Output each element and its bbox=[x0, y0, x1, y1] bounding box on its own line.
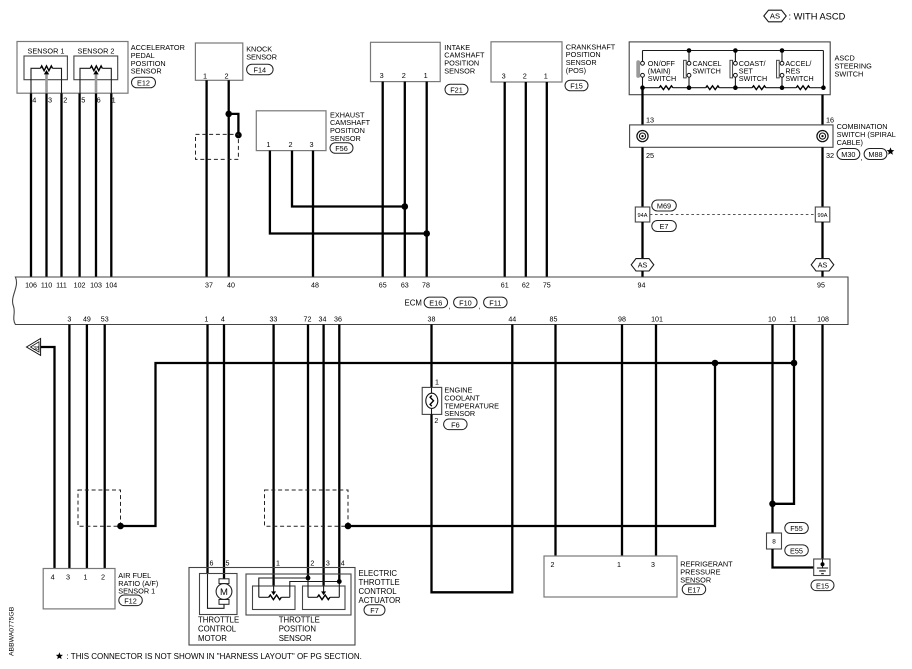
svg-text:4: 4 bbox=[221, 316, 225, 324]
svg-text:44: 44 bbox=[508, 316, 516, 324]
wire comb switch 32 down bbox=[821, 147, 823, 207]
wire crank pin2 to ECM 62 bbox=[525, 82, 527, 277]
junction AF shield bbox=[117, 523, 124, 530]
svg-text:SWITCH: SWITCH bbox=[739, 74, 767, 83]
svg-text:3: 3 bbox=[309, 140, 313, 149]
svg-text:,: , bbox=[861, 153, 863, 162]
svg-text:108: 108 bbox=[817, 316, 829, 324]
svg-text:111: 111 bbox=[56, 281, 67, 289]
switch ACCEL/ SWITCH bbox=[777, 51, 814, 88]
wire exhaust cam pin1 joins intake pin1 wire bbox=[270, 151, 427, 234]
svg-text:11: 11 bbox=[789, 316, 796, 324]
svg-text:103: 103 bbox=[90, 281, 102, 289]
svg-text:3: 3 bbox=[326, 559, 330, 567]
svg-text:36: 36 bbox=[334, 316, 342, 324]
svg-text:110: 110 bbox=[41, 281, 52, 289]
exhaust camshaft position sensor F56 bbox=[256, 110, 370, 153]
svg-text:ECM: ECM bbox=[405, 298, 422, 307]
resistor ladder R3 bbox=[752, 86, 766, 90]
shield dashed box AF sensor bbox=[78, 490, 121, 526]
svg-text:THROTTLE: THROTTLE bbox=[279, 616, 320, 625]
wire arrow 38 to AF sensor pin 4 bbox=[41, 347, 55, 569]
svg-text:2: 2 bbox=[434, 417, 438, 425]
actuator pin labels 6 5 1 2 3 4 bbox=[210, 559, 345, 567]
svg-text:2: 2 bbox=[224, 72, 228, 81]
label THROTTLE POSITION SENSOR bbox=[279, 616, 320, 643]
svg-text:M: M bbox=[220, 587, 228, 598]
shield dashed box throttle bbox=[265, 490, 349, 526]
svg-text:13: 13 bbox=[646, 115, 654, 124]
svg-text:85: 85 bbox=[550, 316, 558, 324]
svg-text:E55: E55 bbox=[790, 547, 803, 556]
shield drain run to x715 riser bbox=[348, 363, 715, 526]
svg-text:5: 5 bbox=[81, 95, 85, 104]
ECM label bbox=[405, 297, 508, 310]
wire crank pin3 to ECM 61 bbox=[504, 82, 506, 277]
wire intake pin3 to ECM 65 bbox=[382, 82, 384, 277]
wire ECM 33 to TPS pin 1 bbox=[272, 325, 274, 587]
ECM top pin number labels bbox=[25, 281, 825, 289]
svg-text:1: 1 bbox=[83, 573, 87, 582]
svg-text:3: 3 bbox=[502, 71, 506, 80]
svg-text:F21: F21 bbox=[450, 86, 463, 95]
connector 99A bbox=[815, 207, 830, 222]
wire crank pin1 to ECM 75 bbox=[546, 82, 548, 277]
svg-text:2: 2 bbox=[551, 561, 555, 569]
crankshaft position sensor (POS) F15 bbox=[491, 42, 616, 91]
wire ECM 10 down through connector 8 bbox=[771, 325, 773, 534]
svg-text:CONTROL: CONTROL bbox=[198, 625, 237, 634]
svg-text:F12: F12 bbox=[124, 596, 137, 605]
svg-text:62: 62 bbox=[522, 281, 530, 289]
wire AS to ECM 95 bbox=[821, 271, 823, 277]
svg-text:AS: AS bbox=[770, 12, 780, 21]
svg-text:AS: AS bbox=[818, 260, 828, 269]
svg-text:5: 5 bbox=[226, 559, 230, 567]
shield drain wire to signal run bbox=[121, 363, 795, 526]
knock sensor F14 bbox=[195, 43, 277, 81]
junction throttle shield bbox=[345, 523, 352, 530]
label ELECTRIC THROTTLE CONTROL ACTUATOR F7 bbox=[359, 569, 402, 615]
svg-text:F11: F11 bbox=[489, 298, 501, 307]
footnote bbox=[56, 652, 362, 661]
svg-text:78: 78 bbox=[422, 281, 430, 289]
svg-text:: THIS CONNECTOR IS NOT SHOWN: : THIS CONNECTOR IS NOT SHOWN IN "HARNES… bbox=[67, 652, 362, 661]
svg-text:SENSOR: SENSOR bbox=[131, 67, 162, 76]
svg-text:94: 94 bbox=[638, 281, 646, 289]
svg-text:40: 40 bbox=[227, 281, 235, 289]
svg-text:6: 6 bbox=[97, 95, 101, 104]
svg-text:3: 3 bbox=[67, 316, 71, 324]
svg-text:75: 75 bbox=[543, 281, 551, 289]
wire ECM 3 to AF sensor pin 3 bbox=[68, 325, 70, 569]
potentiometer sensor 2 bbox=[80, 66, 111, 94]
shield drain jog wire bbox=[229, 114, 239, 135]
wire ECM 34 to TPS pin 3 bbox=[322, 325, 324, 587]
throttle control motor bbox=[200, 574, 238, 615]
wire ECM 36 to TPS pin 4 bbox=[338, 325, 340, 582]
wire bbox=[95, 93, 97, 277]
svg-text:8: 8 bbox=[772, 539, 776, 546]
connector 8 F55 E55 bbox=[767, 523, 809, 556]
junction run at x715 bbox=[712, 360, 719, 367]
svg-text:SENSOR: SENSOR bbox=[330, 134, 361, 143]
svg-text:M30: M30 bbox=[841, 150, 855, 159]
label ACCELERATOR PEDAL POSITION SENSOR bbox=[131, 43, 185, 88]
electric throttle control actuator F7 box bbox=[189, 568, 355, 646]
svg-text:2: 2 bbox=[63, 95, 67, 104]
svg-text:F56: F56 bbox=[335, 144, 348, 153]
svg-text:106: 106 bbox=[25, 281, 37, 289]
svg-text:F6: F6 bbox=[451, 420, 460, 429]
svg-text:: WITH ASCD: : WITH ASCD bbox=[789, 12, 846, 22]
svg-text:,: , bbox=[449, 301, 451, 310]
wire connector 8 to ground E15 bbox=[773, 549, 814, 568]
svg-text:101: 101 bbox=[651, 316, 663, 324]
svg-text:F15: F15 bbox=[570, 82, 583, 91]
svg-text:CABLE): CABLE) bbox=[837, 138, 863, 147]
svg-text:(POS): (POS) bbox=[566, 66, 586, 75]
spiral cable contact left bbox=[637, 131, 648, 142]
svg-text:34: 34 bbox=[319, 316, 327, 324]
svg-text:53: 53 bbox=[101, 316, 109, 324]
svg-text:72: 72 bbox=[304, 316, 312, 324]
switch COAST/ SWITCH bbox=[730, 51, 767, 88]
wire ASCD to combination switch pin 16 bbox=[821, 95, 823, 125]
svg-text:SENSOR: SENSOR bbox=[444, 67, 475, 76]
svg-text:61: 61 bbox=[501, 281, 509, 289]
svg-text:M88: M88 bbox=[868, 150, 882, 159]
svg-text:CONTROL: CONTROL bbox=[359, 587, 398, 596]
wire ECM 11 joins wire 10 bbox=[773, 325, 795, 504]
svg-text:SENSOR: SENSOR bbox=[444, 409, 475, 418]
wire ECM 1 to throttle motor pin 6 bbox=[206, 325, 208, 575]
wire ECM 85 to refrigerant sensor pin 2 bbox=[554, 325, 556, 557]
potentiometer sensor 1 bbox=[31, 66, 62, 94]
svg-text:33: 33 bbox=[269, 316, 277, 324]
svg-text:AS: AS bbox=[638, 260, 648, 269]
switch CANCEL SWITCH bbox=[684, 51, 722, 88]
wire bbox=[78, 93, 80, 277]
ground symbol E15 bbox=[811, 559, 834, 591]
resistor ladder R1 bbox=[659, 86, 673, 90]
svg-text:94A: 94A bbox=[638, 213, 648, 219]
svg-text:1: 1 bbox=[424, 71, 428, 80]
svg-text:E12: E12 bbox=[137, 79, 150, 88]
svg-text:10: 10 bbox=[768, 316, 776, 324]
junctions ASCD top rail bbox=[687, 48, 785, 53]
resistor ladder R4 bbox=[796, 86, 809, 90]
svg-text:SENSOR: SENSOR bbox=[680, 575, 711, 584]
junction wires 10 and 11 bbox=[769, 501, 776, 508]
svg-text:E7: E7 bbox=[660, 222, 669, 231]
svg-text:,: , bbox=[478, 301, 480, 310]
svg-text:99A: 99A bbox=[818, 213, 828, 219]
svg-text:SENSOR: SENSOR bbox=[279, 634, 312, 643]
wire ECM 108 to ground E15 bbox=[821, 325, 823, 560]
svg-text:ELECTRIC: ELECTRIC bbox=[359, 569, 398, 578]
svg-text:4: 4 bbox=[341, 559, 345, 567]
svg-text:32: 32 bbox=[826, 151, 834, 160]
wire exhaust cam pin3 to ECM 48 bbox=[312, 151, 314, 277]
label ASCD STEERING SWITCH bbox=[835, 54, 873, 79]
svg-text:2: 2 bbox=[310, 559, 314, 567]
svg-text:16: 16 bbox=[826, 115, 834, 124]
svg-text:F55: F55 bbox=[790, 524, 803, 533]
svg-text:1: 1 bbox=[276, 559, 280, 567]
svg-text:F14: F14 bbox=[254, 66, 267, 75]
connector 94A bbox=[635, 207, 650, 222]
wire 94A to AS symbol bbox=[641, 222, 643, 259]
svg-text:1: 1 bbox=[617, 561, 621, 569]
wire 99A to AS symbol bbox=[821, 222, 823, 259]
wire bbox=[60, 93, 62, 277]
ECM box E16 F10 F11 bbox=[13, 277, 848, 325]
spiral cable contact right bbox=[817, 131, 828, 142]
svg-text:63: 63 bbox=[401, 281, 409, 289]
ECM bottom pin number labels bbox=[67, 316, 829, 324]
svg-text:6: 6 bbox=[210, 559, 214, 567]
ASCD top rail wire bbox=[643, 50, 824, 52]
junction shield corner bbox=[235, 132, 242, 139]
wire ECM 72 to TPS pin 2 bbox=[307, 325, 309, 579]
svg-text:48: 48 bbox=[311, 281, 319, 289]
engine coolant temperature sensor F6 bbox=[422, 378, 499, 429]
svg-text:1: 1 bbox=[203, 72, 207, 81]
legend symbol AS WITH ASCD bbox=[764, 10, 846, 22]
svg-text:37: 37 bbox=[205, 281, 213, 289]
svg-text:E16: E16 bbox=[429, 298, 442, 307]
wire bbox=[30, 93, 32, 277]
svg-text:SWITCH: SWITCH bbox=[693, 67, 721, 76]
svg-text:THROTTLE: THROTTLE bbox=[359, 578, 400, 587]
svg-text:49: 49 bbox=[83, 316, 91, 324]
wire knock pin2 to ECM 40 bbox=[228, 80, 230, 277]
wire ECM 101 to refrigerant sensor pin 3 bbox=[655, 325, 657, 557]
svg-text:MOTOR: MOTOR bbox=[198, 634, 227, 643]
svg-text:4: 4 bbox=[32, 95, 36, 104]
svg-text:3: 3 bbox=[380, 71, 384, 80]
svg-text:104: 104 bbox=[105, 281, 117, 289]
svg-text:ABBWA0775GB: ABBWA0775GB bbox=[9, 606, 16, 656]
switch ON/OFF SWITCH bbox=[636, 51, 676, 88]
junction on knock pin2 wire bbox=[225, 111, 232, 118]
AS hexagon right bbox=[811, 259, 834, 271]
wire ECM 49 to AF sensor pin 1 bbox=[86, 325, 88, 569]
svg-text:SWITCH: SWITCH bbox=[835, 69, 864, 78]
wire AS to ECM 94 bbox=[641, 271, 643, 277]
resistor ladder R2 bbox=[706, 86, 719, 90]
svg-text:2: 2 bbox=[402, 71, 406, 80]
wire bbox=[110, 93, 112, 277]
svg-text:E15: E15 bbox=[816, 581, 829, 590]
svg-text:2: 2 bbox=[288, 140, 292, 149]
throttle position sensor bbox=[246, 574, 351, 615]
label THROTTLE CONTROL MOTOR bbox=[198, 616, 239, 643]
ASCD right side wire bbox=[822, 51, 824, 88]
wire ECM 98 to refrigerant sensor pin 1 bbox=[621, 325, 623, 557]
combination switch (spiral cable) box bbox=[630, 125, 833, 147]
wire ECM 53 to AF sensor pin 2 bbox=[104, 325, 106, 569]
svg-text:SENSOR: SENSOR bbox=[246, 52, 277, 61]
svg-text:SENSOR 2: SENSOR 2 bbox=[78, 47, 115, 56]
junction run at ECM 11 wire bbox=[791, 360, 798, 367]
svg-text:1: 1 bbox=[544, 71, 548, 80]
svg-text:95: 95 bbox=[817, 281, 825, 289]
svg-text:1: 1 bbox=[204, 316, 208, 324]
svg-text:ACTUATOR: ACTUATOR bbox=[359, 596, 402, 605]
svg-text:38: 38 bbox=[33, 346, 39, 352]
svg-text:3: 3 bbox=[66, 573, 70, 582]
wire ASCD to combination switch pin 13 bbox=[641, 88, 643, 125]
svg-text:F10: F10 bbox=[459, 298, 472, 307]
wire comb switch 25 down bbox=[641, 147, 643, 207]
air fuel ratio (A/F) sensor 1 F12 bbox=[43, 569, 158, 609]
connector labels M69 E7 bbox=[652, 200, 677, 232]
svg-text:M69: M69 bbox=[657, 202, 671, 211]
svg-text:SENSOR 1: SENSOR 1 bbox=[28, 47, 65, 56]
svg-text:SWITCH: SWITCH bbox=[648, 74, 676, 83]
svg-text:SENSOR 1: SENSOR 1 bbox=[118, 587, 155, 596]
svg-text:THROTTLE: THROTTLE bbox=[198, 616, 239, 625]
ASCD steering switch assembly bbox=[629, 42, 830, 95]
wire ECM 38 to ECT sensor pin 1 bbox=[430, 325, 432, 388]
svg-text:3: 3 bbox=[48, 95, 52, 104]
accelerator pedal position sensor E12 bbox=[17, 42, 128, 94]
wire ECM 4 to throttle motor pin 5 bbox=[223, 325, 225, 580]
dashed link between 94A and 99A bbox=[650, 214, 816, 216]
svg-text:2: 2 bbox=[523, 71, 527, 80]
wire exhaust cam pin2 joins intake pin2 wire bbox=[292, 151, 405, 207]
junction on intake pin1 wire bbox=[423, 230, 430, 237]
pin labels 4 3 2 5 6 1 of E12 bbox=[32, 95, 115, 104]
wire intake pin2 to ECM 63 bbox=[404, 82, 406, 277]
wire intake pin1 to ECM 78 bbox=[426, 82, 428, 277]
svg-text:1: 1 bbox=[266, 140, 270, 149]
wire bbox=[45, 93, 47, 277]
svg-text:38: 38 bbox=[428, 316, 436, 324]
svg-text:E17: E17 bbox=[688, 585, 701, 594]
svg-text:2: 2 bbox=[101, 573, 105, 582]
svg-text:3: 3 bbox=[651, 561, 655, 569]
svg-text:POSITION: POSITION bbox=[279, 625, 316, 634]
refrigerant pressure sensor E17 bbox=[544, 556, 733, 597]
svg-text:65: 65 bbox=[379, 281, 387, 289]
wire ECT pin 2 loop to ECM 44 bbox=[432, 325, 513, 593]
page reference arrow 38 bbox=[27, 339, 41, 356]
svg-text:SWITCH: SWITCH bbox=[785, 74, 813, 83]
intake camshaft position sensor F21 bbox=[371, 42, 485, 94]
wire knock pin1 to ECM 37 bbox=[205, 80, 207, 277]
svg-text:1: 1 bbox=[435, 378, 439, 386]
junction on intake pin2 wire bbox=[402, 203, 409, 210]
AS hexagon left bbox=[631, 259, 654, 271]
svg-text:25: 25 bbox=[646, 151, 654, 160]
svg-text:98: 98 bbox=[618, 316, 626, 324]
svg-text:F7: F7 bbox=[370, 606, 379, 615]
label COMBINATION SWITCH (SPIRAL CABLE) M30 M88 bbox=[837, 122, 896, 162]
svg-text:102: 102 bbox=[74, 281, 86, 289]
junctions ASCD bottom rail bbox=[640, 85, 826, 90]
svg-text:4: 4 bbox=[51, 573, 55, 582]
shield dashed box knock sensor bbox=[196, 134, 239, 159]
ASCD bottom ladder rail bbox=[643, 87, 824, 89]
